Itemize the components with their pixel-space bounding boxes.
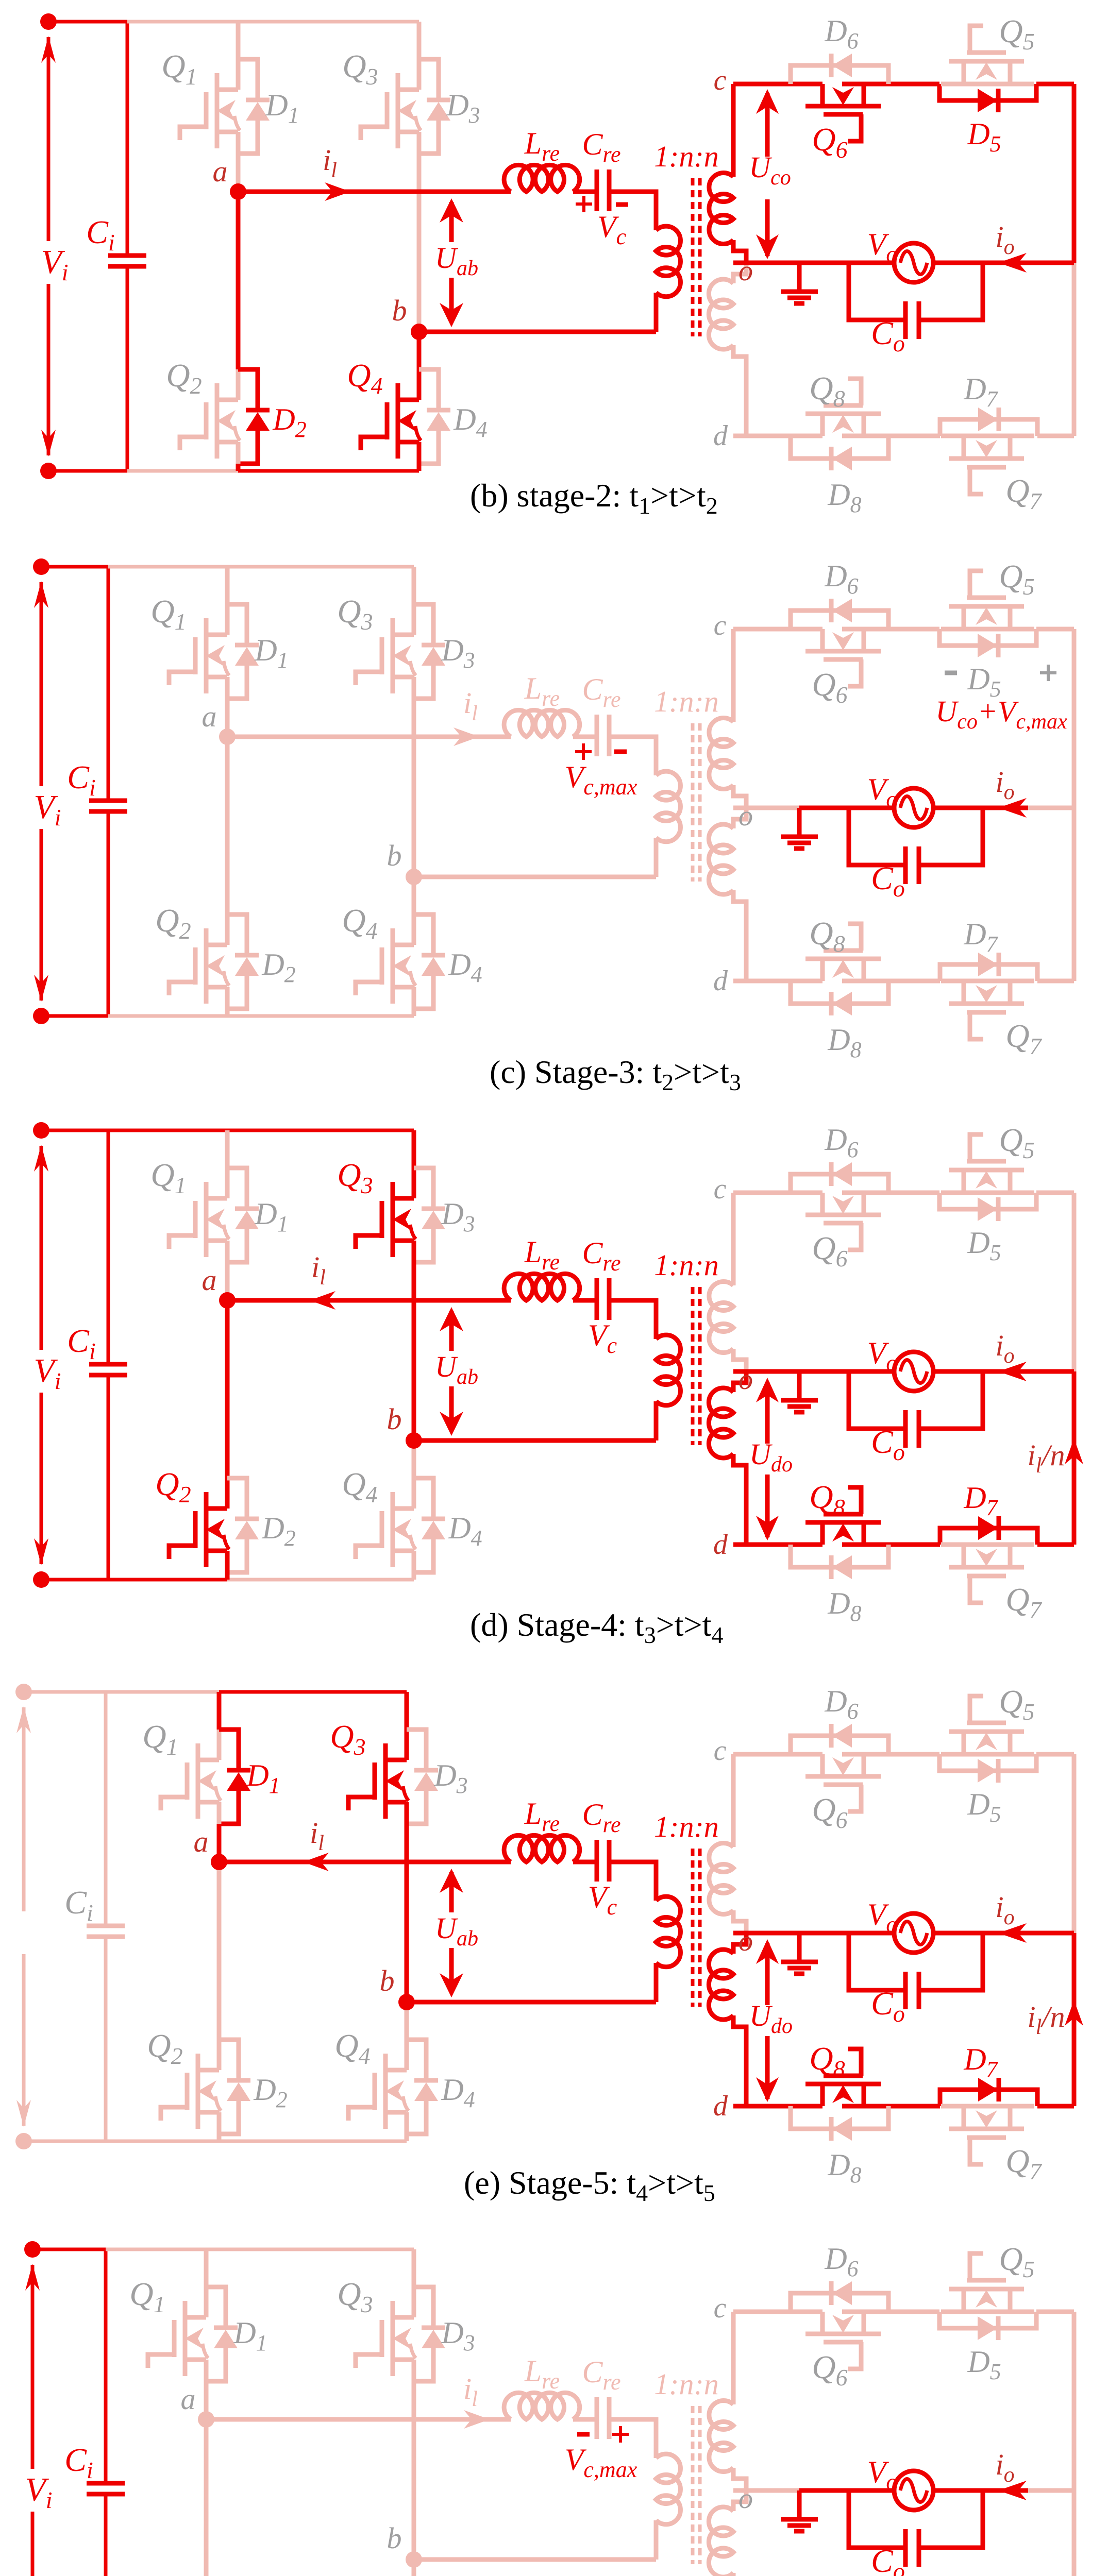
svg-text:o: o [738, 255, 753, 287]
svg-text:(d) Stage-4: t3>t>t4: (d) Stage-4: t3>t>t4 [470, 1606, 723, 1648]
svg-text:1:n:n: 1:n:n [654, 2367, 719, 2401]
svg-text:c: c [714, 1735, 727, 1767]
svg-text:1:n:n: 1:n:n [654, 1810, 719, 1843]
svg-text:c: c [714, 1173, 727, 1205]
svg-text:b: b [387, 2521, 402, 2555]
svg-text:il/n: il/n [1028, 1438, 1065, 1478]
svg-text:a: a [202, 700, 217, 733]
svg-text:1:n:n: 1:n:n [654, 685, 719, 718]
svg-text:b: b [387, 1402, 402, 1436]
svg-text:(b) stage-2: t1>t>t2: (b) stage-2: t1>t>t2 [470, 477, 718, 519]
svg-text:(c) Stage-3: t2>t>t3: (c) Stage-3: t2>t>t3 [490, 1054, 741, 1095]
svg-text:c: c [714, 2292, 727, 2324]
svg-text:1:n:n: 1:n:n [654, 140, 719, 173]
svg-text:(e) Stage-5: t4>t>t5: (e) Stage-5: t4>t>t5 [464, 2164, 715, 2206]
svg-text:o: o [738, 1364, 753, 1396]
svg-text:1:n:n: 1:n:n [654, 1248, 719, 1282]
svg-text:a: a [181, 2382, 196, 2416]
svg-text:o: o [738, 2483, 753, 2515]
svg-text:a: a [202, 1263, 217, 1297]
svg-text:d: d [713, 965, 728, 997]
svg-text:b: b [380, 1964, 395, 1997]
svg-text:c: c [714, 609, 727, 641]
svg-text:a: a [213, 155, 228, 188]
svg-text:d: d [713, 2090, 728, 2122]
svg-text:b: b [387, 839, 402, 872]
svg-text:o: o [738, 800, 753, 832]
svg-text:a: a [194, 1825, 209, 1858]
svg-text:b: b [392, 294, 407, 327]
svg-text:d: d [713, 1529, 728, 1561]
svg-text:d: d [713, 420, 728, 452]
svg-text:il/n: il/n [1028, 2000, 1065, 2039]
svg-text:o: o [738, 1925, 753, 1957]
svg-text:c: c [714, 64, 727, 96]
